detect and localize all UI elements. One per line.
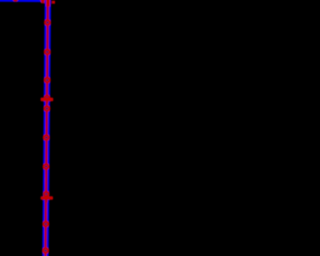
node J1 icon at top junction (cut off): wide red stem xyxy=(46,0,50,6)
node N3 circle marker xyxy=(44,77,51,84)
node marker on horizontal way at x=15 xyxy=(13,0,18,2)
node J2 icon: circle with crossbar xyxy=(41,94,54,103)
wire vertical way red core xyxy=(45,0,48,256)
node N5 circle marker xyxy=(43,134,50,141)
node N6 circle marker xyxy=(43,163,50,170)
node N8 circle marker xyxy=(42,247,49,254)
node N2 circle marker xyxy=(44,49,51,56)
wire horizontal way casing (top edge) xyxy=(0,0,46,2)
node N1 circle marker xyxy=(44,19,51,26)
node marker at end of horizontal way xyxy=(40,0,45,2)
node N7 circle marker xyxy=(42,221,49,228)
node J1 icon left arm xyxy=(41,0,45,3)
node N4 circle marker xyxy=(43,105,50,112)
node J3 icon: circle with crossbar xyxy=(41,191,53,203)
wire vertical way casing xyxy=(45,0,48,256)
node J1 icon right arm xyxy=(52,1,55,4)
